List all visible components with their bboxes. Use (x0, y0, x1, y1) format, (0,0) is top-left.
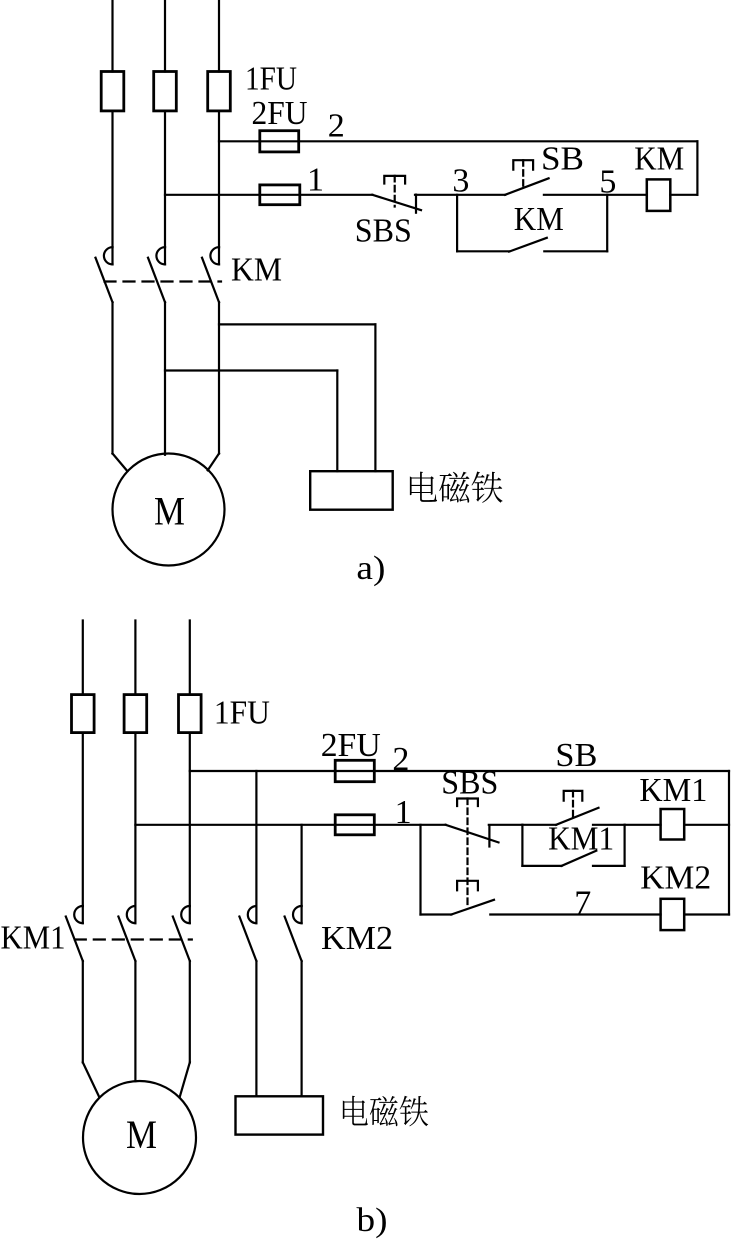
svg-text:SB: SB (541, 141, 584, 178)
svg-text:KM1: KM1 (639, 772, 707, 809)
svg-text:KM2: KM2 (640, 859, 711, 896)
svg-text:SBS: SBS (441, 764, 498, 801)
svg-text:KM: KM (231, 252, 282, 289)
svg-text:1: 1 (307, 162, 324, 199)
svg-text:KM: KM (634, 140, 684, 177)
svg-text:3: 3 (452, 163, 469, 200)
svg-text:a): a) (356, 550, 385, 587)
svg-text:1FU: 1FU (245, 61, 297, 98)
svg-text:KM2: KM2 (321, 920, 393, 957)
svg-text:b): b) (357, 1202, 388, 1239)
svg-text:1FU: 1FU (214, 695, 270, 732)
svg-text:KM: KM (514, 201, 564, 238)
svg-text:2: 2 (328, 108, 345, 145)
svg-text:2FU: 2FU (321, 727, 381, 764)
svg-text:SB: SB (555, 737, 597, 774)
svg-text:M: M (126, 1112, 157, 1157)
svg-text:2FU: 2FU (252, 95, 308, 132)
svg-text:5: 5 (599, 163, 616, 200)
svg-text:SBS: SBS (355, 212, 412, 249)
svg-text:1: 1 (395, 794, 412, 831)
svg-text:7: 7 (574, 885, 591, 922)
svg-text:KM1: KM1 (1, 919, 66, 956)
svg-text:M: M (154, 489, 185, 534)
svg-text:2: 2 (392, 741, 409, 778)
svg-text:KM1: KM1 (548, 821, 614, 858)
